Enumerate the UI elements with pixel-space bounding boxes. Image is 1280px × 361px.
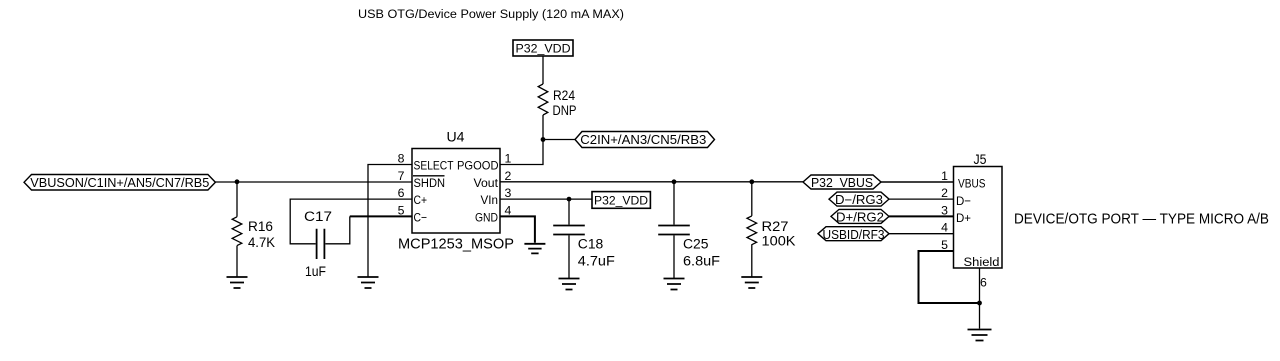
svg-text:D−: D− — [956, 194, 971, 208]
svg-text:C−: C− — [414, 211, 428, 225]
svg-text:DEVICE/OTG PORT — TYPE MICRO A: DEVICE/OTG PORT — TYPE MICRO A/B — [1014, 211, 1269, 227]
svg-text:VIn: VIn — [481, 193, 499, 207]
svg-text:R16: R16 — [248, 219, 273, 234]
svg-text:Shield: Shield — [964, 255, 1000, 269]
svg-text:P32_VBUS: P32_VBUS — [811, 176, 873, 190]
svg-text:2: 2 — [941, 186, 948, 200]
svg-text:D+: D+ — [956, 211, 971, 225]
svg-text:GND: GND — [475, 211, 498, 225]
svg-text:4: 4 — [941, 221, 948, 235]
svg-text:C2IN+/AN3/CN5/RB3: C2IN+/AN3/CN5/RB3 — [580, 133, 706, 147]
svg-text:C+: C+ — [414, 193, 428, 207]
svg-text:USBID/RF3: USBID/RF3 — [823, 228, 885, 242]
svg-text:100K: 100K — [762, 234, 796, 249]
svg-text:VBUS: VBUS — [958, 177, 986, 191]
svg-text:3: 3 — [505, 186, 512, 200]
svg-text:2: 2 — [505, 169, 512, 183]
svg-text:3: 3 — [941, 203, 948, 217]
svg-text:D−/RG3: D−/RG3 — [835, 193, 883, 207]
svg-text:DNP: DNP — [553, 103, 577, 118]
svg-text:SHDN: SHDN — [414, 176, 446, 190]
svg-text:C17: C17 — [304, 209, 332, 224]
svg-text:4.7K: 4.7K — [248, 235, 275, 250]
svg-text:Vout: Vout — [474, 176, 499, 190]
svg-text:USB OTG/Device Power Supply (1: USB OTG/Device Power Supply (120 mA MAX) — [358, 7, 624, 21]
svg-text:1: 1 — [941, 169, 948, 183]
svg-text:6.8uF: 6.8uF — [683, 254, 720, 269]
svg-text:C18: C18 — [578, 236, 604, 251]
svg-text:VBUSON/C1IN+/AN5/CN7/RB5: VBUSON/C1IN+/AN5/CN7/RB5 — [30, 176, 209, 190]
svg-text:J5: J5 — [974, 152, 987, 167]
svg-text:MCP1253_MSOP: MCP1253_MSOP — [398, 236, 514, 252]
svg-text:R24: R24 — [553, 88, 575, 103]
svg-text:4: 4 — [505, 203, 512, 217]
svg-text:5: 5 — [941, 238, 948, 252]
svg-text:U4: U4 — [447, 129, 466, 144]
svg-text:7: 7 — [398, 169, 405, 183]
svg-text:4.7uF: 4.7uF — [578, 254, 615, 269]
svg-text:8: 8 — [398, 152, 405, 166]
svg-text:D+/RG2: D+/RG2 — [836, 211, 884, 225]
svg-text:6: 6 — [980, 275, 987, 289]
svg-text:P32_VDD: P32_VDD — [594, 193, 648, 207]
svg-text:R27: R27 — [762, 219, 789, 234]
svg-text:PGOOD: PGOOD — [457, 159, 499, 173]
svg-text:P32_VDD: P32_VDD — [516, 41, 571, 55]
svg-text:SELECT: SELECT — [414, 159, 454, 173]
svg-text:1uF: 1uF — [305, 264, 326, 279]
svg-text:6: 6 — [398, 186, 405, 200]
svg-text:1: 1 — [505, 152, 512, 166]
svg-text:5: 5 — [398, 203, 405, 217]
svg-text:C25: C25 — [683, 236, 709, 251]
